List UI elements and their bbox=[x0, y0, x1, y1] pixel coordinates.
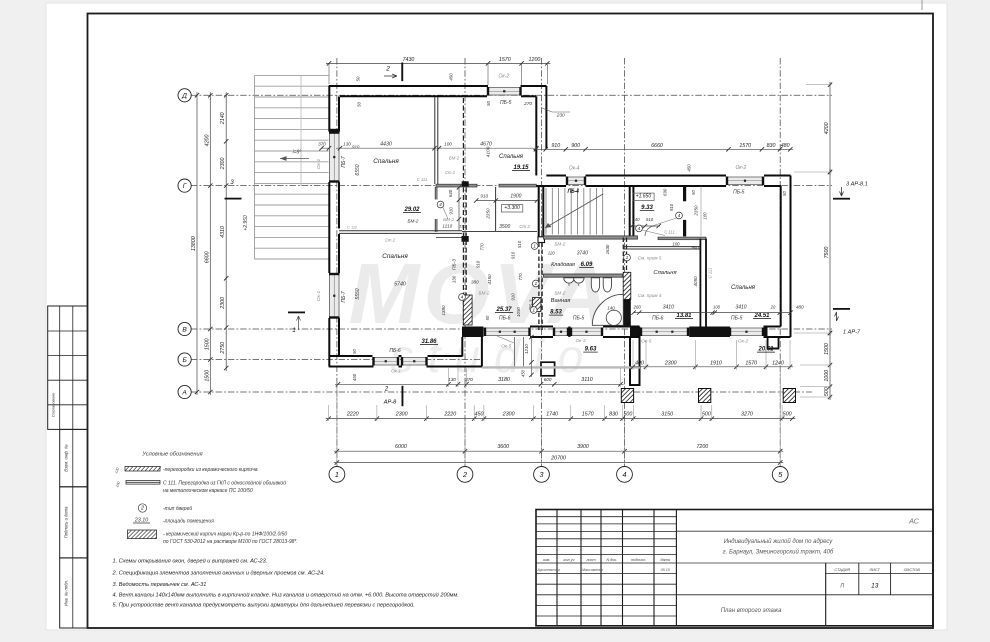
svg-text:+2.950: +2.950 bbox=[243, 215, 249, 231]
svg-text:2220: 2220 bbox=[346, 411, 359, 417]
svg-text:20.61: 20.61 bbox=[757, 347, 774, 353]
svg-text:450: 450 bbox=[521, 369, 526, 377]
svg-text:910: 910 bbox=[448, 207, 453, 215]
svg-text:900: 900 bbox=[691, 245, 699, 250]
svg-text:4200: 4200 bbox=[824, 122, 830, 134]
svg-text:4: 4 bbox=[439, 202, 442, 208]
svg-text:2: 2 bbox=[140, 506, 144, 512]
svg-text:1: 1 bbox=[335, 470, 339, 479]
svg-text:4200: 4200 bbox=[204, 135, 210, 147]
svg-text:140: 140 bbox=[607, 306, 615, 311]
svg-text:2300: 2300 bbox=[395, 411, 408, 417]
svg-text:ПБ-6: ПБ-6 bbox=[389, 348, 401, 354]
svg-text:кол.уч: кол.уч bbox=[564, 558, 575, 562]
svg-text:Индивидуальный жилой дом по ад: Индивидуальный жилой дом по адресу bbox=[724, 538, 834, 545]
svg-text:ПБ-5: ПБ-5 bbox=[731, 316, 743, 322]
svg-text:См. прим 4: См. прим 4 bbox=[638, 293, 662, 298]
svg-text:Ок-2: Ок-2 bbox=[498, 74, 509, 80]
svg-text:на металлическом каркасе ПС 10: на металлическом каркасе ПС 100/50 bbox=[163, 488, 253, 494]
svg-text:270: 270 bbox=[523, 101, 532, 107]
svg-text:Согласовано: Согласовано bbox=[51, 392, 56, 417]
svg-text:2750: 2750 bbox=[220, 342, 226, 355]
svg-text:100: 100 bbox=[444, 142, 452, 147]
svg-text:910: 910 bbox=[352, 144, 360, 149]
svg-text:6.09: 6.09 bbox=[581, 262, 593, 268]
svg-text:340: 340 bbox=[632, 217, 640, 222]
svg-text:+1.650: +1.650 bbox=[636, 193, 652, 199]
svg-text:4: 4 bbox=[461, 295, 464, 301]
svg-text:2300: 2300 bbox=[220, 297, 226, 310]
svg-text:450: 450 bbox=[475, 411, 484, 417]
svg-text:Ок-2: Ок-2 bbox=[738, 339, 749, 345]
svg-text:4310: 4310 bbox=[220, 226, 226, 238]
svg-text:1210: 1210 bbox=[524, 344, 529, 354]
svg-text:План второго этажа: План второго этажа bbox=[721, 608, 782, 614]
svg-text:2300: 2300 bbox=[220, 158, 226, 171]
svg-text:Максименко: Максименко bbox=[582, 568, 603, 572]
svg-text:1740: 1740 bbox=[546, 411, 558, 417]
svg-text:ЛИСТОВ: ЛИСТОВ bbox=[903, 567, 920, 572]
svg-text:9.33: 9.33 bbox=[641, 205, 653, 211]
svg-text:23.10: 23.10 bbox=[134, 518, 149, 524]
svg-text:Б: Б bbox=[182, 357, 187, 364]
svg-text:-тип дверей: -тип дверей bbox=[163, 505, 192, 512]
svg-text:13: 13 bbox=[871, 583, 879, 590]
svg-text:130: 130 bbox=[343, 141, 351, 146]
svg-text:i=9°: i=9° bbox=[293, 150, 302, 156]
svg-text:Ок-5: Ок-5 bbox=[641, 339, 652, 345]
svg-text:дата: дата bbox=[660, 558, 669, 562]
svg-text:Ок-1: Ок-1 bbox=[316, 159, 322, 170]
svg-text:9.63: 9.63 bbox=[585, 347, 597, 353]
svg-text:5. При устройстве вент.каналов: 5. При устройстве вент.каналов предусмот… bbox=[113, 602, 415, 609]
svg-text:370: 370 bbox=[318, 141, 326, 146]
svg-text:770: 770 bbox=[480, 243, 485, 251]
svg-text:2300: 2300 bbox=[502, 411, 515, 417]
svg-text:3900: 3900 bbox=[577, 444, 589, 450]
svg-text:ПБ-6: ПБ-6 bbox=[652, 316, 664, 322]
svg-text:1000: 1000 bbox=[824, 370, 830, 382]
svg-text:ПБ-7: ПБ-7 bbox=[341, 291, 347, 303]
svg-text:50: 50 bbox=[486, 101, 491, 106]
svg-text:910: 910 bbox=[511, 251, 516, 259]
svg-text:500: 500 bbox=[702, 411, 711, 417]
svg-text:1570: 1570 bbox=[739, 143, 751, 149]
svg-text:480: 480 bbox=[796, 304, 804, 309]
svg-text:Спальня: Спальня bbox=[731, 285, 756, 291]
svg-text:Ст 2: Ст 2 bbox=[519, 224, 530, 229]
svg-text:по ГОСТ 530-2012 на растворе М: по ГОСТ 530-2012 на растворе М100 по ГОС… bbox=[163, 539, 298, 545]
svg-text:910: 910 bbox=[511, 293, 516, 301]
svg-text:500: 500 bbox=[783, 411, 792, 417]
svg-text:Ок-5: Ок-5 bbox=[501, 344, 512, 350]
svg-text:- керамический кирпич марки Кр: - керамический кирпич марки Кр-р-по 1НФ/… bbox=[163, 531, 287, 538]
svg-text:1050: 1050 bbox=[516, 307, 521, 317]
svg-text:260: 260 bbox=[633, 304, 642, 309]
svg-text:Условные обозначения: Условные обозначения bbox=[141, 452, 202, 458]
svg-text:ПБ-4: ПБ-4 bbox=[567, 189, 579, 195]
svg-text:50: 50 bbox=[355, 76, 360, 81]
svg-text:4. Вент.каналы 140х140мм выпол: 4. Вент.каналы 140х140мм выполнить в кир… bbox=[113, 592, 459, 599]
svg-text:130: 130 bbox=[451, 275, 456, 283]
svg-text:7500: 7500 bbox=[824, 247, 830, 259]
svg-text:ПБ-5: ПБ-5 bbox=[500, 100, 512, 106]
svg-text:В: В bbox=[182, 326, 187, 333]
svg-text:910: 910 bbox=[476, 260, 481, 268]
svg-text:3150: 3150 bbox=[661, 411, 673, 417]
svg-text:1. Схемы открывания окон, двер: 1. Схемы открывания окон, дверей и витра… bbox=[113, 558, 268, 565]
svg-text:+3.300: +3.300 bbox=[504, 205, 520, 211]
svg-text:БМ-2: БМ-2 bbox=[554, 241, 565, 246]
svg-text:П: П bbox=[840, 584, 844, 590]
svg-text:3180: 3180 bbox=[498, 377, 510, 383]
svg-text:130: 130 bbox=[448, 377, 456, 382]
svg-text:Ок-1: Ок-1 bbox=[391, 369, 401, 374]
svg-text:50: 50 bbox=[357, 102, 362, 107]
svg-text:1570: 1570 bbox=[582, 411, 594, 417]
svg-text:100: 100 bbox=[703, 212, 708, 220]
svg-text:2350: 2350 bbox=[694, 205, 699, 217]
svg-text:ПБ-3: ПБ-3 bbox=[451, 259, 457, 270]
svg-text:13800: 13800 bbox=[191, 236, 197, 251]
svg-text:С 111: С 111 bbox=[708, 268, 713, 279]
svg-text:450: 450 bbox=[686, 164, 691, 172]
svg-text:Взам. инф. №: Взам. инф. № bbox=[64, 444, 69, 472]
svg-text:Спальня: Спальня bbox=[499, 154, 524, 160]
svg-text:Ок-2: Ок-2 bbox=[576, 338, 587, 344]
svg-text:3. Ведомость перемычек см. АС-: 3. Ведомость перемычек см. АС-31 bbox=[113, 582, 207, 588]
svg-text:ПБ-5: ПБ-5 bbox=[733, 190, 745, 196]
svg-text:5550: 5550 bbox=[355, 288, 361, 299]
svg-text:3410: 3410 bbox=[735, 304, 746, 310]
svg-text:2300: 2300 bbox=[664, 361, 677, 367]
svg-text:3270: 3270 bbox=[741, 411, 753, 417]
svg-text:2350: 2350 bbox=[486, 208, 491, 220]
svg-text:ЛИСТ: ЛИСТ bbox=[868, 567, 880, 572]
svg-text:г. Барнаул, Змеиногорский трак: г. Барнаул, Змеиногорский тракт, 40б bbox=[723, 549, 834, 556]
svg-text:4050: 4050 bbox=[693, 276, 698, 287]
svg-text:690: 690 bbox=[663, 188, 668, 196]
svg-text:4150: 4150 bbox=[487, 274, 492, 285]
svg-text:1240: 1240 bbox=[772, 361, 784, 367]
svg-text:1900: 1900 bbox=[510, 194, 521, 200]
svg-text:31.86: 31.86 bbox=[421, 339, 437, 345]
svg-text:2: 2 bbox=[384, 387, 389, 393]
svg-text:4: 4 bbox=[638, 226, 641, 232]
svg-text:1 АР-7: 1 АР-7 bbox=[843, 330, 861, 336]
svg-text:Ок-1: Ок-1 bbox=[316, 291, 322, 302]
svg-text:3600: 3600 bbox=[497, 444, 509, 450]
svg-text:480: 480 bbox=[781, 143, 790, 149]
svg-text:50: 50 bbox=[352, 349, 357, 354]
svg-text:230: 230 bbox=[556, 113, 565, 119]
svg-text:БМ-2: БМ-2 bbox=[408, 219, 419, 224]
svg-text:ПБ-5: ПБ-5 bbox=[573, 316, 585, 322]
svg-text:24.51: 24.51 bbox=[753, 313, 770, 319]
svg-text:N док.: N док. bbox=[606, 558, 617, 562]
svg-text:1: 1 bbox=[534, 281, 537, 287]
svg-text:Ок-4: Ок-4 bbox=[569, 166, 580, 172]
svg-text:770: 770 bbox=[518, 273, 523, 281]
svg-text:8.53: 8.53 bbox=[550, 310, 562, 316]
svg-text:Ванная: Ванная bbox=[551, 298, 571, 304]
svg-text:4: 4 bbox=[623, 470, 627, 479]
svg-text:380: 380 bbox=[471, 280, 479, 285]
svg-text:600: 600 bbox=[544, 377, 552, 382]
svg-text:100: 100 bbox=[673, 242, 681, 247]
svg-text:Подпись и дата: Подпись и дата bbox=[64, 506, 69, 538]
svg-text:подпись: подпись bbox=[631, 558, 645, 562]
svg-text:1910: 1910 bbox=[710, 361, 722, 367]
svg-text:Ст 2: Ст 2 bbox=[385, 238, 396, 243]
svg-text:05.15: 05.15 bbox=[661, 568, 671, 572]
svg-text:АР-8: АР-8 bbox=[383, 400, 397, 406]
svg-text:Спальня: Спальня bbox=[653, 270, 676, 276]
svg-text:1570: 1570 bbox=[499, 57, 511, 63]
svg-text:БМ-2: БМ-2 bbox=[554, 291, 565, 296]
svg-text:130: 130 bbox=[459, 223, 466, 228]
svg-text:1: 1 bbox=[532, 308, 535, 314]
svg-text:50: 50 bbox=[485, 315, 490, 320]
svg-text:С 111. Перегородка из ГКЛ с од: С 111. Перегородка из ГКЛ с однослойной … bbox=[163, 480, 286, 487]
svg-text:3500: 3500 bbox=[499, 224, 510, 230]
svg-text:Спальня: Спальня bbox=[373, 158, 399, 165]
svg-text:3740: 3740 bbox=[577, 250, 588, 256]
svg-text:500: 500 bbox=[824, 387, 830, 396]
svg-text:400: 400 bbox=[635, 361, 644, 367]
svg-text:910: 910 bbox=[646, 217, 654, 222]
svg-text:450: 450 bbox=[352, 373, 357, 381]
svg-text:АС: АС bbox=[908, 517, 920, 526]
svg-text:-перегородки из керамического: -перегородки из керамического кирпича bbox=[163, 467, 258, 473]
svg-text:5740: 5740 bbox=[394, 282, 406, 288]
svg-text:А: А bbox=[181, 389, 187, 396]
svg-text:500: 500 bbox=[623, 411, 632, 417]
svg-text:БМ-2: БМ-2 bbox=[443, 217, 454, 222]
svg-text:ПБ-6: ПБ-6 bbox=[499, 316, 511, 322]
svg-text:Д: Д bbox=[181, 93, 187, 100]
svg-text:3110: 3110 bbox=[581, 377, 592, 383]
svg-text:Кладовая: Кладовая bbox=[551, 262, 575, 268]
svg-text:510: 510 bbox=[517, 240, 522, 248]
svg-text:6000: 6000 bbox=[395, 444, 407, 450]
svg-text:2220: 2220 bbox=[443, 411, 456, 417]
svg-text:7430: 7430 bbox=[403, 57, 415, 63]
svg-text:2: 2 bbox=[385, 66, 390, 73]
svg-text:900: 900 bbox=[571, 143, 580, 149]
svg-text:См. прим 5: См. прим 5 bbox=[638, 256, 662, 261]
svg-text:29.02: 29.02 bbox=[403, 207, 420, 213]
svg-text:6550: 6550 bbox=[355, 164, 361, 175]
svg-text:450: 450 bbox=[449, 73, 454, 81]
svg-text:100: 100 bbox=[713, 304, 721, 309]
svg-text:20: 20 bbox=[770, 304, 776, 309]
svg-text:лист: лист bbox=[585, 558, 595, 562]
svg-text:С 111: С 111 bbox=[664, 229, 675, 234]
svg-text:1: 1 bbox=[533, 244, 536, 250]
svg-text:1200: 1200 bbox=[529, 57, 541, 63]
svg-text:studio: studio bbox=[391, 330, 598, 382]
svg-text:2: 2 bbox=[462, 470, 467, 479]
svg-text:19.15: 19.15 bbox=[513, 165, 529, 171]
svg-text:-площадь помещения: -площадь помещения bbox=[163, 519, 214, 525]
svg-text:С 111: С 111 bbox=[347, 225, 357, 230]
svg-text:910: 910 bbox=[480, 194, 488, 199]
svg-text:50: 50 bbox=[691, 190, 696, 195]
svg-text:2. Спецификация элементов запо: 2. Спецификация элементов заполнения око… bbox=[112, 571, 325, 577]
svg-text:Архитектор: Архитектор bbox=[537, 568, 560, 572]
svg-text:Спальня: Спальня bbox=[382, 253, 408, 260]
svg-text:Инв. № подл.: Инв. № подл. bbox=[64, 580, 69, 606]
svg-text:1500: 1500 bbox=[204, 338, 210, 350]
svg-text:13.81: 13.81 bbox=[676, 313, 692, 319]
svg-text:Ок-2: Ок-2 bbox=[736, 165, 747, 171]
svg-text:СТАДИЯ: СТАДИЯ bbox=[834, 567, 850, 572]
svg-text:БМ-2: БМ-2 bbox=[449, 156, 460, 161]
svg-text:7200: 7200 bbox=[696, 444, 708, 450]
svg-text:640: 640 bbox=[448, 189, 453, 197]
svg-text:3410: 3410 bbox=[663, 304, 674, 310]
svg-text:3: 3 bbox=[540, 470, 544, 479]
svg-text:20700: 20700 bbox=[550, 456, 566, 462]
svg-text:25.37: 25.37 bbox=[495, 307, 512, 313]
svg-text:830: 830 bbox=[609, 411, 618, 417]
svg-text:910: 910 bbox=[669, 203, 674, 211]
svg-text:1500: 1500 bbox=[204, 370, 210, 382]
svg-text:4: 4 bbox=[678, 213, 681, 219]
svg-text:1570: 1570 bbox=[745, 361, 757, 367]
svg-text:1630: 1630 bbox=[605, 244, 610, 254]
svg-text:1: 1 bbox=[626, 255, 629, 261]
svg-text:6600: 6600 bbox=[204, 251, 210, 263]
svg-text:С 111: С 111 bbox=[417, 177, 428, 182]
svg-text:120: 120 bbox=[548, 250, 556, 255]
svg-text:910: 910 bbox=[551, 143, 560, 149]
svg-text:Ст 2: Ст 2 bbox=[445, 170, 456, 175]
svg-text:4430: 4430 bbox=[380, 142, 392, 148]
svg-text:50: 50 bbox=[782, 191, 787, 196]
svg-text:Г: Г bbox=[183, 183, 187, 190]
svg-text:ПБ-7: ПБ-7 bbox=[341, 156, 347, 168]
svg-text:1210: 1210 bbox=[442, 223, 452, 228]
svg-text:1: 1 bbox=[292, 328, 295, 334]
svg-text:1380: 1380 bbox=[441, 305, 446, 316]
svg-text:БМ-2: БМ-2 bbox=[479, 291, 490, 296]
svg-text:6660: 6660 bbox=[651, 143, 663, 149]
svg-text:830: 830 bbox=[767, 143, 776, 149]
svg-text:2140: 2140 bbox=[220, 112, 226, 125]
svg-text:3 АР-8.1: 3 АР-8.1 bbox=[846, 182, 868, 188]
svg-text:1500: 1500 bbox=[824, 343, 830, 355]
svg-text:изм.: изм. bbox=[543, 558, 551, 562]
